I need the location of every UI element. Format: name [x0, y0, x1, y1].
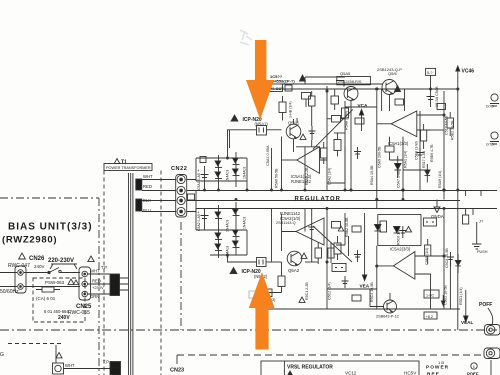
junction node C	[376, 198, 378, 200]
wire Q506 down	[389, 95, 391, 112]
POFF jack 1	[485, 325, 500, 336]
resistor R534 vertical	[447, 118, 454, 128]
capacitor C542	[447, 252, 454, 266]
board boundary dash-dot full width	[0, 329, 497, 331]
VEAL down arrowhead	[464, 316, 468, 322]
svg-text:BIAS UNIT(3/3): BIAS UNIT(3/3)	[8, 222, 93, 233]
rectifier diode D505	[218, 205, 220, 258]
small box H3	[352, 226, 361, 232]
capacitor C533	[417, 148, 424, 160]
wire mains lower left	[0, 286, 17, 288]
svg-text:C5A2 0-A5: C5A2 0-A5	[197, 214, 201, 231]
transistor label box 2SC2458	[337, 77, 371, 85]
small box H1	[355, 118, 364, 124]
wire CN25 pin1 WHT	[88, 273, 110, 275]
connect 345 to op amp	[334, 132, 345, 134]
voltage selector switch S901	[48, 271, 50, 273]
warning triangle bottom-left	[56, 353, 62, 358]
diode D531	[425, 170, 431, 175]
wire top right box down	[430, 75, 432, 89]
svg-text:VC46: VC46	[462, 69, 475, 75]
lower bridge top wire	[196, 209, 247, 231]
opamp3 input stubs	[417, 115, 444, 130]
svg-text:IC5A2(3/3): IC5A2(3/3)	[390, 247, 411, 252]
junction dot r10	[344, 189, 346, 191]
svg-text:G?D: G?D	[486, 105, 494, 109]
wire bridge to ICP lower	[228, 255, 257, 262]
svg-text:R5B2 10-5B: R5B2 10-5B	[345, 217, 349, 237]
svg-text:R5A9 (1/4): R5A9 (1/4)	[438, 171, 442, 188]
junction dot r7	[430, 88, 432, 90]
secondary wire BLU to CN22	[142, 211, 176, 213]
svg-text:PUSH: PUSH	[477, 250, 488, 254]
op-amp IC501(3/3)	[391, 111, 417, 137]
resistor R542 vertical	[425, 245, 431, 256]
mesh verticals lower	[327, 209, 345, 310]
junction dot bridge 6	[246, 189, 248, 191]
connector CN22	[176, 175, 187, 218]
POFF wire diagonal	[488, 308, 493, 325]
box 1-8C	[424, 290, 439, 298]
lower bridge bottom wire	[210, 230, 247, 255]
rail from CN22 pin1	[187, 180, 247, 182]
junction dot bridge 5	[204, 189, 206, 191]
wire h y183 upper	[327, 146, 345, 183]
resistor R5y	[437, 104, 446, 110]
vertical node x444	[443, 91, 445, 200]
wire stub right cluster	[431, 129, 445, 131]
resistor R511 vertical	[279, 102, 286, 113]
svg-text:C5A1 0.95A: C5A1 0.95A	[266, 145, 270, 166]
svg-text:C5A7 1-8B: C5A7 1-8B	[397, 170, 401, 188]
svg-text:220-230V: 220-230V	[48, 258, 74, 264]
svg-text:C5C8 10-5B: C5C8 10-5B	[445, 248, 449, 268]
small box H2	[385, 146, 394, 152]
mesh h y=146	[296, 147, 327, 160]
VEA down arrow	[364, 213, 366, 276]
resistor R5B3 vertical	[421, 130, 427, 141]
svg-text:5-?: 5-?	[427, 71, 433, 75]
svg-text:G: G	[0, 352, 4, 358]
vertical node x420	[419, 111, 421, 190]
resistor R531 vertical	[309, 96, 316, 106]
small box below rail	[302, 93, 311, 100]
dashed rail end drop	[176, 355, 178, 364]
warning triangle at Q502	[301, 253, 307, 258]
faint scan artifact top	[240, 30, 252, 45]
svg-text:IC5A1(3/3): IC5A1(3/3)	[388, 141, 409, 146]
smoothing capacitor C511	[201, 166, 209, 190]
rectifier diode D502	[235, 152, 237, 187]
GNDA symbol	[434, 200, 440, 213]
svg-text:VRSL REGULATOR: VRSL REGULATOR	[287, 365, 333, 371]
wire stub x306 down	[305, 99, 307, 107]
warning triangle small left	[73, 280, 78, 285]
transformer secondary tab lower	[136, 199, 142, 211]
svg-text:1N4A03: 1N4A03	[243, 217, 247, 229]
primary leads from housing	[120, 278, 129, 290]
transistor Q504	[384, 300, 397, 313]
wire opamp2 apex	[282, 232, 297, 252]
svg-text:POEF: POEF	[467, 372, 479, 375]
resistor R52c vertical	[380, 221, 387, 232]
frame bottom wire	[378, 245, 421, 247]
warning triangle T1	[114, 159, 120, 164]
junction node H	[443, 255, 445, 257]
capacitor C531	[309, 126, 316, 140]
warning triangle top-left	[300, 75, 306, 81]
main rail upper (pin2)	[187, 190, 497, 192]
mesh h y=107	[345, 106, 377, 108]
svg-text:(CA) 6 01: (CA) 6 01	[36, 296, 56, 301]
junction dot bridge 4	[227, 254, 229, 256]
warning triangle y297	[299, 297, 305, 302]
svg-text:2SB643-P-1C: 2SB643-P-1C	[376, 315, 400, 319]
rectifier diode D501	[218, 155, 220, 190]
dashed stub bottom-left	[8, 343, 62, 345]
resistor in selector box	[42, 287, 54, 292]
wire stub x390	[390, 137, 404, 160]
junction node G	[376, 265, 378, 267]
warning triangle in VRSL box	[287, 371, 293, 375]
resistor R535 vertical	[331, 96, 339, 104]
svg-text:R5A6 56-5B: R5A6 56-5B	[275, 168, 279, 188]
VC46 up arrow	[457, 67, 459, 75]
wire h y262	[305, 261, 318, 263]
junction square on pin1 rail	[200, 157, 206, 163]
vertical x345	[344, 101, 346, 190]
transistor Q501	[286, 124, 301, 139]
vertical node x403	[402, 137, 404, 201]
top rail 1	[267, 88, 458, 90]
transistor Q505	[344, 87, 358, 101]
wire drops from top rail	[382, 89, 405, 111]
wire opamp4 output	[377, 246, 394, 309]
bracket under 220-230V	[50, 264, 77, 269]
selector dashed box	[33, 278, 85, 322]
svg-text:+8.2: +8.2	[426, 315, 434, 319]
component hang right rail	[463, 215, 469, 224]
frame box lower mid	[378, 214, 421, 245]
arrowhead drop x443	[441, 301, 445, 306]
diode D5x upper	[395, 164, 402, 170]
circled 1	[471, 363, 477, 369]
wire to test point blob	[64, 368, 111, 370]
wire stub Q505 base	[336, 81, 344, 87]
resistor R523 vertical	[334, 243, 341, 254]
box +B- right	[423, 218, 436, 226]
wire Q501 emitter down	[293, 139, 295, 152]
rectifier diode D510	[233, 241, 239, 246]
VCA up arrow	[361, 114, 363, 131]
wire Q505 collector	[350, 101, 352, 191]
junction dot bridge 2	[235, 199, 237, 201]
junction dot bridge 3	[227, 157, 229, 159]
wire vertical x305	[304, 147, 306, 190]
annotation arrow top (orange, pointing down)	[246, 40, 274, 120]
svg-text:R5A4 10-5B: R5A4 10-5B	[370, 165, 374, 185]
svg-text:Q5/6: Q5/6	[388, 71, 397, 76]
svg-text:1N4A03: 1N4A03	[226, 220, 230, 232]
transformer secondary tab upper	[136, 179, 142, 190]
bias unit boundary dash-dot horizontal	[0, 197, 99, 199]
resistor R5C9 vertical	[328, 248, 334, 258]
push ground wire	[476, 222, 478, 244]
capacitor C5A8	[427, 89, 435, 107]
svg-text:HC5V: HC5V	[404, 371, 417, 375]
wire stub q504 base	[370, 289, 384, 307]
diode D52a	[375, 225, 382, 231]
warning triangle at Q506	[395, 86, 401, 92]
svg-text:T.P.: T.P.	[103, 360, 110, 365]
wire mains left to CN26	[0, 272, 17, 274]
bias unit boundary dash-dot vertical	[98, 198, 100, 375]
junction node B	[350, 189, 352, 191]
connector CN26	[15, 266, 26, 293]
svg-text:REGULATOR: REGULATOR	[295, 197, 341, 203]
small resistor on 345	[342, 108, 349, 118]
wire x450 lower	[449, 262, 451, 290]
wire diagonal feedback upper	[313, 109, 353, 149]
svg-text:1N4A03: 1N4A03	[226, 170, 230, 182]
resistor R512	[332, 116, 341, 123]
svg-text:WHT: WHT	[65, 363, 75, 368]
svg-text:+: +	[197, 210, 200, 215]
smoothing capacitor C512	[201, 209, 209, 231]
vertical x444 lower	[443, 209, 445, 310]
svg-text:CN22: CN22	[171, 166, 187, 172]
svg-text:POWER TRANSFORMER: POWER TRANSFORMER	[106, 166, 151, 170]
svg-text:C5A1 0-A5: C5A1 0-A5	[197, 173, 201, 190]
wire opamp1 apex input	[282, 132, 297, 161]
wire bridge to ICP upper	[228, 130, 257, 158]
svg-text:1-8C: 1-8C	[426, 294, 434, 298]
VC46 bus vertical	[457, 74, 459, 330]
warning triangle ICP lower	[230, 268, 237, 274]
wire CN26 pin1 to switch	[24, 272, 48, 274]
svg-text:RED: RED	[92, 279, 101, 284]
svg-text:R5A1 (1/4): R5A1 (1/4)	[404, 151, 408, 168]
svg-text:50/60Hz: 50/60Hz	[0, 289, 19, 295]
junction node A	[326, 90, 328, 92]
svg-text:POFF: POFF	[479, 302, 492, 308]
capacitor C5x	[354, 147, 361, 159]
op-amp IC502(1/3)	[296, 218, 324, 245]
junction node E	[443, 114, 445, 116]
annotation arrow bottom (orange, pointing up)	[249, 272, 275, 350]
svg-text:GNDA: GNDA	[431, 214, 444, 219]
fuse ICP-N30 upper	[257, 126, 267, 136]
VRSL box divider	[283, 361, 285, 375]
svg-text:+230V: +230V	[92, 285, 104, 290]
warning triangle PSW	[68, 279, 74, 284]
svg-text:C5C2 (1/4): C5C2 (1/4)	[328, 282, 332, 300]
wire vertical x312	[311, 114, 313, 147]
resistor R535 leads	[334, 89, 336, 110]
mid rail (pin3)	[187, 200, 460, 202]
transformer dashed enclosure right edge	[160, 171, 162, 375]
wire diagonal feedback lower	[313, 226, 352, 262]
svg-text:2SB1143-Q: 2SB1143-Q	[276, 221, 296, 225]
GND jack upper right	[491, 94, 498, 101]
op-amp IC501(1/3)	[297, 147, 320, 174]
rectifier diode D504	[233, 169, 239, 174]
wire vertical x305 lower	[304, 209, 306, 232]
rectifier diode D503	[215, 172, 221, 177]
svg-text:RWC-055: RWC-055	[68, 310, 90, 316]
node wire x271	[271, 148, 273, 190]
svg-text:R5C1 2-2B: R5C1 2-2B	[305, 282, 309, 300]
junction dot r3	[304, 189, 306, 191]
svg-text:R5D1 (1/4): R5D1 (1/4)	[459, 287, 463, 305]
svg-text:WHT: WHT	[143, 174, 153, 179]
resistor R513 vertical	[334, 140, 341, 151]
svg-text:VEAL: VEAL	[461, 320, 473, 325]
wire CN25 pin3 GRN	[88, 293, 110, 295]
junction dot r2	[281, 189, 283, 191]
resistor R521 vertical	[278, 276, 285, 287]
svg-text:J?: J?	[479, 219, 484, 224]
resistor box right-mid	[395, 99, 404, 105]
wire h y289 lower	[327, 288, 377, 290]
wire CN25 pin2 RED	[88, 283, 110, 285]
junction node D	[457, 88, 459, 90]
VRSL regulator box	[261, 361, 419, 375]
vertical pair lower cluster	[331, 236, 349, 263]
svg-text:CN23: CN23	[170, 368, 184, 374]
wire y=289 lower	[258, 262, 282, 293]
resistor R532 vertical	[321, 148, 328, 158]
transistor Q502	[287, 251, 302, 266]
junction dot r5	[376, 88, 378, 90]
lower rail y=309	[256, 308, 460, 310]
resistor R522	[332, 222, 341, 229]
junction dot bridge 1	[218, 189, 220, 191]
bridge vertical output	[246, 158, 248, 190]
diode D52b	[394, 227, 401, 233]
warning triangle lower mid	[406, 227, 412, 232]
junction dots top	[376, 88, 378, 90]
dashed rail above VRSL box	[177, 354, 484, 356]
diode D541	[455, 261, 461, 266]
transistor Q506	[382, 80, 397, 95]
box +B- lower	[332, 264, 346, 272]
connector CN25	[79, 267, 91, 300]
fuse ICP-N30 lower	[257, 258, 267, 267]
warning triangle at CN26	[19, 253, 26, 259]
test point blob (black)	[110, 362, 121, 375]
bridge top wire	[196, 158, 247, 209]
svg-text:C5A2 (1/4): C5A2 (1/4)	[328, 168, 332, 185]
svg-text:240V: 240V	[34, 264, 45, 269]
svg-text:G?D: G?D	[486, 143, 494, 147]
svg-text:C5D2 10-5B: C5D2 10-5B	[444, 285, 448, 305]
rectifier diode D506	[235, 202, 237, 255]
warning triangle at Q501	[300, 134, 306, 139]
svg-text:(RWZ2980): (RWZ2980)	[2, 235, 57, 246]
wire switch to CN25	[60, 272, 80, 274]
svg-text:CN26: CN26	[29, 256, 45, 262]
svg-text:C5B8 (1-W): C5B8 (1-W)	[415, 141, 419, 160]
junction node F	[326, 261, 328, 263]
capacitor C52d	[400, 226, 407, 238]
svg-text:VEA: VEA	[360, 284, 370, 289]
warning triangle CN25	[88, 256, 94, 262]
junction dot r9	[457, 189, 459, 191]
wire vertical x312 lower	[311, 209, 313, 263]
svg-text:REE: REE	[427, 372, 440, 375]
push ground symbol	[472, 244, 481, 249]
svg-text:Q5A5: Q5A5	[340, 71, 351, 76]
main rail lower (pin4)	[187, 209, 497, 212]
svg-text:VC12: VC12	[345, 371, 357, 375]
op-amp IC502(3/3)	[393, 252, 415, 280]
warning triangle lower x341	[338, 226, 344, 231]
small box right of P-OUT	[285, 85, 292, 91]
capacitor C52x	[354, 250, 361, 262]
wire jack2 down	[490, 360, 492, 375]
vertical x281 lower	[281, 214, 283, 232]
wire apex to Q501 column	[282, 159, 297, 161]
svg-text:R5B9 4-7B: R5B9 4-7B	[430, 144, 434, 162]
secondary wire RED to CN22	[142, 190, 176, 192]
box +8.2	[424, 312, 437, 319]
svg-text:R5C4 10-5B: R5C4 10-5B	[370, 282, 374, 302]
small component box near arrow	[259, 289, 272, 297]
svg-text:WHT: WHT	[90, 269, 100, 274]
small box H4	[352, 295, 361, 301]
faint scan artifact box	[249, 291, 256, 298]
svg-text:T1: T1	[121, 160, 127, 166]
warning triangle ICP upper	[231, 115, 238, 121]
wire ICP upper to circuit	[267, 129, 282, 131]
svg-text:POWER: POWER	[426, 365, 449, 371]
resistor R541 vertical	[315, 248, 322, 258]
junction dot r8	[443, 208, 445, 210]
rectifier diode D508	[233, 230, 239, 235]
transformer core lines	[129, 173, 133, 375]
svg-text:+: +	[197, 168, 200, 173]
boundary dash-dot below CN22	[180, 222, 182, 330]
opamp4 stubs	[415, 256, 444, 309]
svg-text:BLU: BLU	[143, 208, 151, 213]
wire opamp3 output left	[377, 123, 391, 125]
svg-text:C5A5 100-5B: C5A5 100-5B	[378, 146, 382, 168]
capacitor C541	[308, 222, 315, 236]
svg-text:Q5A2: Q5A2	[288, 268, 300, 273]
svg-text:R5C6 1-8B: R5C6 1-8B	[397, 227, 401, 245]
vertical node x376.8	[376, 91, 378, 209]
svg-text:PSW-063: PSW-063	[45, 280, 65, 285]
tick marks rail crossings	[466, 190, 481, 215]
wire to TP connector	[55, 345, 57, 363]
secondary wire WHT to CN22	[142, 179, 176, 181]
vertical x271 lower	[271, 209, 273, 262]
svg-text:1 B: 1 B	[438, 360, 444, 365]
top rail 2	[280, 83, 383, 85]
svg-text:GRN: GRN	[90, 294, 99, 299]
wire top rail y77	[305, 77, 345, 84]
rectifier diode D509	[215, 244, 221, 249]
rectifier diode D507	[215, 233, 221, 238]
svg-text:1N4A03: 1N4A03	[243, 167, 247, 179]
POFF jack 2	[484, 348, 500, 359]
svg-text:1-HB (1/4): 1-HB (1/4)	[289, 101, 293, 118]
junction box right of CN22	[188, 194, 195, 200]
junction dot r6	[402, 199, 404, 201]
capacitor C543	[342, 276, 349, 288]
TP connector square	[53, 363, 64, 374]
